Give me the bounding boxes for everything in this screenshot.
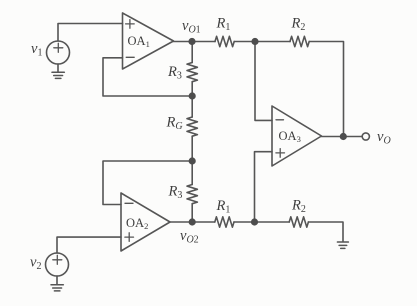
resistor R1 (top) <box>215 36 234 46</box>
ground below v1 <box>52 72 64 78</box>
svg-text:R2: R2 <box>291 198 306 216</box>
node D (bottom junction dot) <box>251 218 258 225</box>
wire node A to RG <box>191 96 193 117</box>
wire junction C down to OA3 - input <box>255 42 272 121</box>
resistor R3 (bottom, vertical) <box>187 185 197 204</box>
op-amp OA2 <box>121 193 170 251</box>
node vO2 (dot) <box>189 218 196 225</box>
wire junction D up to OA3 + input <box>255 152 273 222</box>
wire R1 to junction C <box>234 41 255 43</box>
wire vO1 node down to R3 top <box>191 42 193 63</box>
wire node to output terminal <box>343 136 362 138</box>
op-amp OA1 <box>123 13 174 69</box>
wire R2 to right corner down to ground <box>308 222 343 242</box>
voltage source v1 <box>47 41 70 64</box>
resistor RG (vertical) <box>187 117 197 136</box>
wire junction D to R2 (bottom) <box>255 221 290 223</box>
svg-text:R1: R1 <box>216 198 231 216</box>
wire node B to R3 bottom <box>191 161 193 185</box>
svg-text:OA3: OA3 <box>279 129 301 144</box>
wire node vO2 to R1 (bottom row) <box>192 221 215 223</box>
svg-text:OA2: OA2 <box>126 216 148 231</box>
svg-text:R1: R1 <box>216 16 231 34</box>
svg-text:RG: RG <box>166 115 183 133</box>
svg-text:R3: R3 <box>168 184 183 202</box>
svg-text:vO2: vO2 <box>180 228 199 246</box>
svg-text:R3: R3 <box>167 64 182 82</box>
svg-text:vO: vO <box>377 129 391 147</box>
wire OA2 output to node vO2 <box>170 221 192 223</box>
wire v1 top to OA1 + input <box>58 24 123 42</box>
output terminal vO (open circle) <box>362 133 369 140</box>
node OA3 output (dot) <box>340 133 347 140</box>
wire v1 bottom to ground <box>57 64 59 72</box>
resistor R2 (top) <box>290 36 309 46</box>
node A (R3-RG junction dot) <box>189 92 196 99</box>
wire R2 to right corner, down to output node <box>309 42 343 137</box>
svg-text:R2: R2 <box>291 16 306 34</box>
svg-text:v1: v1 <box>31 41 42 59</box>
node C (top junction dot) <box>251 38 258 45</box>
wire v2 top to OA2 + input <box>57 237 121 253</box>
wire R3 to node A <box>191 82 193 96</box>
wire OA2 feedback (node B to - input) <box>103 161 192 205</box>
svg-text:vO1: vO1 <box>182 18 201 36</box>
wire R3 bottom to node vO2 <box>191 204 193 222</box>
ground below v2 <box>51 285 63 291</box>
resistor R2 (bottom) <box>289 217 308 227</box>
svg-text:v2: v2 <box>30 255 41 273</box>
wire node vO1 to R1 (top row) <box>192 41 215 43</box>
wire OA1 feedback (- input to node A) <box>103 58 192 96</box>
wire RG to node B <box>191 136 193 161</box>
wire OA3 output to node <box>322 136 344 138</box>
wire v2 bottom to ground <box>56 276 58 285</box>
wire OA1 output to node vO1 <box>174 41 193 43</box>
wire R1 to junction D <box>234 221 255 223</box>
resistor R1 (bottom) <box>215 217 234 227</box>
voltage source v2 <box>46 253 69 276</box>
svg-text:OA1: OA1 <box>128 34 150 49</box>
wire junction C to R2 (top) <box>255 41 290 43</box>
node B (RG-R3 junction dot) <box>189 157 196 164</box>
op-amp OA3 <box>272 106 322 166</box>
resistor R3 (top, vertical) <box>187 63 197 82</box>
node vO1 (dot) <box>188 38 195 45</box>
ground (bottom right) <box>337 242 348 248</box>
